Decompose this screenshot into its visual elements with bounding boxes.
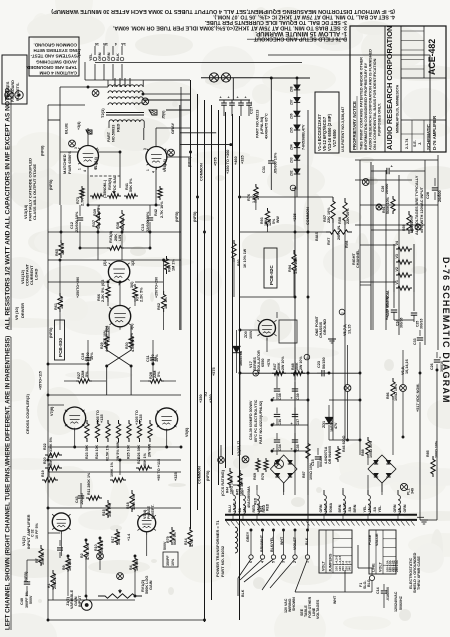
svg-text:30K 1%: 30K 1% (108, 503, 112, 517)
tube list box (315, 92, 339, 153)
svg-text:Z04: Z04 (290, 144, 294, 150)
jumpers table (319, 530, 352, 573)
svg-text:16: 16 (95, 42, 99, 46)
tube V1(2) input amplifier (52, 513, 70, 531)
svg-text:1B: 1B (103, 42, 108, 46)
svg-text:10,14,16: 10,14,16 (405, 359, 409, 374)
svg-text:1K 5%: 1K 5% (135, 559, 139, 571)
svg-text:470K: 470K (190, 538, 194, 547)
resistor R22 330K (43, 436, 62, 457)
svg-text:R88: R88 (361, 449, 365, 456)
svg-text:1- ALLOW 15 MINUTE WARMUP.: 1- ALLOW 15 MINUTE WARMUP. (255, 30, 347, 36)
resistor R44 100 ohm (226, 468, 234, 494)
svg-text:S.E.: S.E. (413, 140, 417, 147)
svg-text:2.2K 5%: 2.2K 5% (140, 287, 144, 302)
svg-text:1M 1%: 1M 1% (172, 259, 176, 271)
capacitor C23 50/150 (317, 357, 330, 376)
svg-text:TAPS ARE GROUNDED.: TAPS ARE GROUNDED. (26, 65, 77, 70)
capacitor C25 300/16 (411, 292, 424, 329)
labels +105 TO +135 (96, 410, 143, 425)
svg-text:+575: +575 (267, 359, 271, 367)
capacitor C13 .22/600 (141, 205, 153, 233)
transformer labels (64, 108, 176, 142)
label 120/240VAC 50/60HZ (394, 591, 403, 612)
svg-text:J5(6): J5(6) (162, 110, 166, 119)
svg-text:ING SYSTEMS WITH: ING SYSTEMS WITH (33, 48, 77, 53)
svg-text:RED: RED (252, 505, 256, 513)
wires output stage (48, 87, 190, 620)
funlet terminal 3 (290, 185, 296, 191)
resistor R58 22K (338, 198, 350, 225)
svg-text:8: 8 (162, 168, 166, 170)
label V9(10) driver (14, 303, 25, 320)
svg-text:+575: +575 (212, 367, 216, 376)
svg-text:R37: R37 (92, 220, 96, 227)
svg-text:JUMPERS: JUMPERS (329, 553, 333, 572)
svg-text:WHT: WHT (333, 595, 337, 604)
resistor R7 30K (35, 545, 45, 566)
resistor R64 1M (164, 256, 175, 274)
svg-text:LEFT CHANNEL SHOWN (RIGHT CHAN: LEFT CHANNEL SHOWN (RIGHT CHANNEL TUBE P… (5, 336, 12, 630)
primary terminals 1-6 (249, 530, 310, 563)
resistor R85 100 (361, 437, 373, 458)
svg-text:CLASS AB-1 OUTPUT STAGE: CLASS AB-1 OUTPUT STAGE (32, 164, 37, 220)
output transformer T2(3) (106, 80, 144, 128)
output tube V15(16) (146, 147, 167, 168)
svg-text:+360: +360 (209, 394, 213, 403)
svg-text:ON A CONFIDENTIAL BASIS FOR ID: ON A CONFIDENTIAL BASIS FOR IDENTIFICATI… (373, 58, 377, 150)
capacitor bank C27 (4 electrolytics) (219, 96, 252, 117)
connector J3(4) plug symbol (86, 130, 92, 134)
svg-text:PART NO.43210(UPNL92): PART NO.43210(UPNL92) (259, 400, 263, 444)
svg-text:+: + (245, 96, 247, 100)
resistor R16 100K (110, 461, 126, 482)
zener ZD1 1N5368B 47V (322, 405, 338, 440)
svg-text:R65: R65 (55, 249, 59, 256)
bias pot RV7 RV8 20K LIN (315, 225, 352, 248)
svg-text:7-IN5368B,47V: 7-IN5368B,47V (302, 124, 306, 150)
svg-text:3: 3 (143, 148, 147, 150)
funlet heater right group (400, 385, 407, 392)
svg-text:BLU: BLU (228, 505, 232, 513)
svg-text:R22: R22 (43, 443, 47, 450)
svg-text:(UPNL94): (UPNL94) (260, 116, 264, 134)
terminal circled 2 (339, 309, 345, 315)
svg-text:V5,7,9,: V5,7,9, (343, 324, 347, 336)
tube V5(6) (156, 408, 178, 430)
resistor R81 56 (402, 211, 414, 234)
svg-text:R7: R7 (35, 558, 39, 563)
svg-text:R46 820Ω: R46 820Ω (342, 435, 346, 452)
svg-text:GAIN: GAIN (149, 580, 153, 590)
resistor R42 2.7K (154, 186, 164, 218)
B+ bus wires (191, 80, 240, 622)
svg-text:30K 1%: 30K 1% (117, 531, 121, 545)
svg-text:C33: C33 (413, 338, 417, 345)
svg-text:R24 10K: R24 10K (95, 444, 99, 459)
svg-text:(NFB): (NFB) (41, 145, 45, 156)
svg-text:TO: TO (204, 392, 208, 397)
funlet near blue lead (92, 90, 99, 97)
svg-text:COMMON: COMMON (200, 163, 204, 181)
svg-text:240 2.0A: 240 2.0A (395, 559, 399, 572)
svg-text:SHOWN: SHOWN (292, 597, 296, 611)
svg-text:C23: C23 (317, 361, 321, 368)
capacitor C11 .1/400 (146, 352, 159, 365)
svg-text:R20: R20 (43, 457, 47, 464)
pilot lamp PL1 349 (400, 483, 414, 495)
resistor R86 100 (386, 378, 398, 401)
svg-text:100Ω 10%: 100Ω 10% (309, 462, 313, 480)
funlet common feed (218, 445, 225, 463)
capacitor C32 10PF (31, 522, 64, 558)
cathode resistor row R23-R26 (85, 420, 152, 442)
schematic label (426, 115, 437, 150)
svg-text:VOLT: VOLT (379, 561, 383, 572)
funlet pair on heater feed (209, 73, 230, 82)
svg-text:560K 10%: 560K 10% (386, 196, 390, 214)
svg-text:(-35NOM.-): (-35NOM.-) (103, 179, 107, 198)
svg-text:3(8): 3(8) (130, 323, 134, 330)
svg-text:PCB-830: PCB-830 (58, 338, 63, 357)
transformer primary feed wires (115, 78, 130, 87)
svg-text:ORN: ORN (319, 504, 323, 512)
svg-text:+350: +350 (199, 394, 203, 403)
funlet heater left group (344, 385, 351, 392)
resistor R70 2.2K (133, 284, 144, 302)
svg-text:C38: C38 (278, 393, 282, 400)
svg-text:R2: R2 (80, 553, 84, 558)
svg-text:4- SET AC BAL. TO MIN. THD AT: 4- SET AC BAL. TO MIN. THD AT 75W AT 1KH… (213, 14, 395, 20)
chassis ground bar (225, 515, 417, 526)
resistor R91 560K (382, 196, 395, 214)
svg-text:YEL: YEL (89, 53, 93, 61)
capacitor C33 (413, 330, 423, 348)
svg-text:300/16: 300/16 (440, 361, 444, 372)
svg-text:INPUT: INPUT (78, 595, 82, 607)
svg-text:3(6): 3(6) (130, 281, 134, 288)
svg-text:100K 10%: 100K 10% (410, 215, 414, 233)
svg-text:350PF: 350PF (166, 555, 170, 566)
pin labels driver tubes (101, 259, 135, 332)
svg-text:V1(U2,J7: V1(U2,J7 (237, 441, 241, 456)
svg-text:100Ω 10%: 100Ω 10% (435, 440, 439, 458)
svg-text:PCB-82C: PCB-82C (269, 265, 274, 285)
svg-text:10%: 10% (90, 352, 94, 360)
capacitor C24 300/16 (391, 292, 404, 328)
svg-text:+250TO+290: +250TO+290 (155, 277, 159, 298)
svg-text:R23 39K: R23 39K (85, 444, 89, 459)
svg-text:R76: R76 (247, 194, 251, 201)
svg-text:(NFB): (NFB) (188, 156, 192, 167)
bridge rectifier D5-D8 (368, 455, 396, 483)
svg-text:10 PF 5%: 10 PF 5% (35, 522, 39, 539)
svg-text:LIN: LIN (118, 235, 122, 241)
svg-text:WW: WW (276, 216, 280, 223)
tube V11(12) constant current load (108, 261, 129, 282)
svg-text:2W WW: 2W WW (148, 443, 152, 457)
svg-text:C31: C31 (262, 166, 266, 173)
svg-text:GRN: GRN (107, 52, 111, 61)
svg-text:Z08: Z08 (290, 86, 294, 92)
svg-text:GREY: GREY (246, 531, 250, 542)
svg-text:.22/600 10%: .22/600 10% (75, 211, 79, 233)
funlet J3(4) (69, 140, 76, 147)
svg-text:.05/600 10%: .05/600 10% (274, 152, 278, 174)
PSU wires (240, 312, 437, 520)
line cord wires (295, 545, 384, 608)
svg-text:C35: C35 (296, 444, 300, 451)
wires cross-coupled network (48, 340, 181, 395)
label 4-IN2071A diodes (324, 446, 332, 464)
svg-text:R61: R61 (54, 303, 58, 310)
note: left channel shown (5, 336, 12, 630)
secondary winding coils (233, 490, 400, 521)
resistor R47 150K 2W (272, 356, 286, 376)
svg-text:7(16): 7(16) (77, 48, 81, 58)
svg-text:R9: R9 (62, 565, 66, 570)
svg-text:200Ω 1%: 200Ω 1% (53, 573, 57, 589)
svg-text:+250TO+290: +250TO+290 (76, 277, 80, 298)
svg-text:C 32: C 32 (31, 529, 35, 537)
svg-text:SYSTEMS AND TEST-: SYSTEMS AND TEST- (30, 54, 77, 59)
funlet mid input (97, 553, 104, 560)
primary tap labels (246, 531, 309, 552)
power transformer T1 labels (215, 469, 225, 577)
svg-text:(NFB): (NFB) (206, 470, 210, 481)
bridge rectifier D1-D4 (247, 455, 297, 508)
resistor R20 30K (43, 452, 62, 470)
svg-text:50/150: 50/150 (319, 456, 323, 467)
label 120VAC wiring shown (284, 597, 296, 613)
resistor R45 100 ohm (236, 470, 244, 496)
svg-text:R21: R21 (137, 457, 141, 464)
svg-text:R62: R62 (157, 303, 161, 310)
svg-text:+Ω17 VDC NOM.: +Ω17 VDC NOM. (386, 290, 390, 318)
svg-text:C12: C12 (70, 222, 74, 229)
resistor R48 150K 2W (291, 356, 305, 376)
svg-text:4: 4 (152, 171, 156, 173)
svg-text:GRN: GRN (393, 504, 397, 512)
svg-text:Z02: Z02 (290, 170, 294, 176)
svg-text:V3: V3 (395, 254, 399, 258)
resistor R15 30K (102, 500, 112, 518)
heater wiring bus (355, 55, 438, 350)
svg-text:+517 VDC NOM.: +517 VDC NOM. (416, 383, 420, 412)
svg-text:+1.4: +1.4 (127, 534, 131, 541)
svg-text:R73: R73 (76, 197, 80, 204)
svg-text:Z06: Z06 (290, 113, 294, 119)
svg-text:(NFB): (NFB) (193, 211, 197, 222)
heater dropping resistors V1-V4 (394, 241, 414, 292)
resistor R87 100 (302, 440, 313, 480)
wires input stage (27, 508, 205, 620)
filter capacitors C34-C39 (272, 382, 300, 451)
pin number labels output tubes (74, 147, 169, 173)
wires driver (48, 260, 164, 340)
svg-text:+: + (228, 96, 230, 100)
svg-text:10%: 10% (155, 354, 159, 362)
svg-text:30K 5%: 30K 5% (41, 551, 45, 565)
svg-text:T2(3): T2(3) (100, 108, 105, 118)
resistor R30 4.99K (125, 334, 135, 352)
svg-text:470K 10%: 470K 10% (86, 542, 90, 560)
jumper fan wires (238, 559, 308, 597)
svg-text:3- SET DC BAL. TO EQUAL IDLE C: 3- SET DC BAL. TO EQUAL IDLE CURRENTS PE… (204, 19, 347, 25)
svg-text:RV5(6): RV5(6) (108, 177, 112, 190)
label C34-39 600MFD electrolytic (249, 399, 263, 444)
capacitor C42 boxed 350PF (163, 541, 178, 567)
svg-text:ORN: ORN (98, 52, 102, 61)
svg-text:C26: C26 (430, 363, 434, 370)
capacitor C12 .22/600 (70, 205, 83, 233)
svg-text:5A: 5A (238, 508, 242, 513)
svg-text:ZD0: ZD0 (244, 331, 248, 338)
svg-text:2.7K 10%: 2.7K 10% (160, 201, 164, 218)
svg-text:GROUND: GROUND (323, 319, 327, 335)
label -35 NOM (88, 176, 160, 205)
wires heater lower (360, 245, 396, 282)
svg-text:PART NO.43213: PART NO.43213 (256, 110, 260, 138)
svg-text:10K 5%: 10K 5% (97, 215, 101, 229)
capacitor C26 300/16 (430, 352, 444, 372)
svg-text:C10: C10 (81, 353, 85, 360)
funlet heater 3 (415, 224, 421, 230)
svg-text:50MA: 50MA (329, 503, 333, 513)
svg-text:.5A: .5A (348, 507, 352, 513)
svg-text:R30: R30 (125, 342, 129, 349)
svg-text:2W 10%: 2W 10% (299, 356, 303, 370)
svg-text:(NFB): (NFB) (49, 327, 53, 338)
svg-text:+350 TO +360: +350 TO +360 (226, 150, 230, 174)
bus labels (41, 145, 245, 484)
svg-text:300/16: 300/16 (420, 319, 424, 329)
svg-text:50/150: 50/150 (322, 357, 326, 369)
svg-text:AUDIO RESEARCH CORPORATION AND: AUDIO RESEARCH CORPORATION AND IS FURNIS… (369, 49, 373, 150)
svg-text:RED: RED (262, 505, 266, 513)
label V1(2) input amplifier (21, 514, 31, 549)
svg-text:2W 5% WW: 2W 5% WW (116, 441, 120, 461)
svg-text:C39: C39 (296, 393, 300, 400)
svg-text:4.99K 1%: 4.99K 1% (131, 335, 135, 352)
svg-text:YEL: YEL (363, 505, 367, 513)
svg-text:R29: R29 (100, 342, 104, 349)
resistor R9 1K (62, 556, 72, 572)
svg-text:FUSE: FUSE (368, 534, 372, 545)
svg-text:RED: RED (116, 123, 121, 132)
svg-text:BLUE: BLUE (64, 123, 69, 134)
svg-text:5%: 5% (157, 371, 161, 377)
note block: D-76 field setup and checkout (51, 8, 395, 42)
tube V9(10) driver (109, 305, 130, 326)
svg-text:YEL: YEL (378, 505, 382, 513)
svg-text:+3(4): +3(4) (77, 121, 81, 130)
svg-text:D-76 SCHEMATIC DIAGRAM: D-76 SCHEMATIC DIAGRAM (441, 257, 450, 404)
svg-text:20/600: 20/600 (385, 184, 389, 194)
svg-text:+: + (237, 96, 239, 100)
bus jog wires (180, 105, 232, 330)
resistor R79 56K (166, 527, 177, 545)
svg-text:Z03: Z03 (290, 157, 294, 163)
cross wires (64, 326, 176, 395)
resistor R2 470K (80, 540, 90, 560)
svg-text:+575: +575 (214, 157, 218, 166)
svg-text:4: 4 (83, 170, 87, 172)
svg-text:1N5378B: 1N5378B (239, 350, 243, 366)
svg-text:5: 5 (96, 149, 100, 151)
svg-text:(NFB): (NFB) (175, 211, 179, 222)
trim pot RV3(4) 20K LIN (107, 230, 124, 250)
resistor R19 100K (41, 462, 58, 482)
diode string 7-1N5368B 47V (271, 78, 310, 190)
svg-text:PAIR 6550'S: PAIR 6550'S (67, 151, 72, 174)
resistor R38 10K (116, 210, 125, 232)
svg-text:C14: C14 (376, 587, 380, 594)
capacitor C26 20/600 (381, 164, 398, 195)
svg-text:4X40/475 65°C: 4X40/475 65°C (265, 113, 269, 139)
svg-text:C27 —: C27 — (249, 102, 254, 114)
svg-text:PART: PART (107, 131, 111, 142)
svg-text:5: 5 (272, 561, 276, 563)
labels RED bridge leads (254, 497, 270, 512)
svg-text:BLK: BLK (241, 589, 245, 597)
note: all resistors 1/2 watt (5, 86, 12, 330)
resistor R28 22M (148, 371, 164, 384)
regulator feedback box (279, 320, 297, 343)
svg-text:COMMON: COMMON (198, 466, 202, 484)
svg-text:R87: R87 (302, 471, 306, 478)
svg-text:CAUTION! 4 OHM: CAUTION! 4 OHM (39, 71, 77, 76)
svg-text:RV8: RV8 (345, 241, 349, 248)
svg-text:1: 1 (78, 168, 82, 170)
svg-text:BIAS: BIAS (315, 231, 319, 241)
resistor R37 10K (92, 208, 101, 232)
svg-text:.01/6000: .01/6000 (386, 587, 390, 601)
svg-text:100K 1%: 100K 1% (110, 461, 114, 477)
svg-text:22K 10%: 22K 10% (327, 207, 331, 223)
funlet at pot (117, 573, 124, 580)
svg-text:INVERT.: INVERT. (151, 504, 155, 519)
resistor R57 22K (323, 197, 335, 223)
svg-text:40AC/800MA: 40AC/800MA (247, 486, 251, 508)
svg-text:500V: 500V (29, 595, 33, 604)
funlet PSU left (242, 456, 249, 463)
resistor R17 30K (111, 529, 121, 545)
resistor R76 1.5K (247, 184, 260, 203)
svg-text:.22/600 10%: .22/600 10% (146, 211, 150, 233)
svg-text:+: + (220, 96, 222, 100)
svg-text:C40: C40 (20, 598, 24, 605)
svg-text:.5A: .5A (373, 507, 377, 513)
svg-text:1(2): 1(2) (131, 259, 135, 266)
resistor R94 1.8K (288, 250, 298, 274)
PCB-830 board label (55, 320, 65, 360)
svg-text:R15: R15 (102, 509, 106, 516)
svg-text:R58: R58 (338, 217, 342, 224)
resistor R66 2.2K (97, 284, 110, 302)
svg-text:30K 1%: 30K 1% (143, 452, 147, 466)
labels R71 R72 under V9 (103, 330, 134, 345)
svg-text:20/600: 20/600 (438, 190, 442, 202)
svg-text:(NFB): (NFB) (24, 571, 28, 582)
capacitor C14 .01/600 (376, 584, 390, 602)
small resistors R69 R70 (253, 458, 268, 480)
svg-text:R79: R79 (166, 536, 170, 543)
svg-text:20K LIN.: 20K LIN. (337, 225, 341, 240)
input jack J1(2) (66, 589, 92, 610)
svg-text:C34: C34 (278, 444, 282, 451)
resistor R14 470K (184, 527, 194, 547)
